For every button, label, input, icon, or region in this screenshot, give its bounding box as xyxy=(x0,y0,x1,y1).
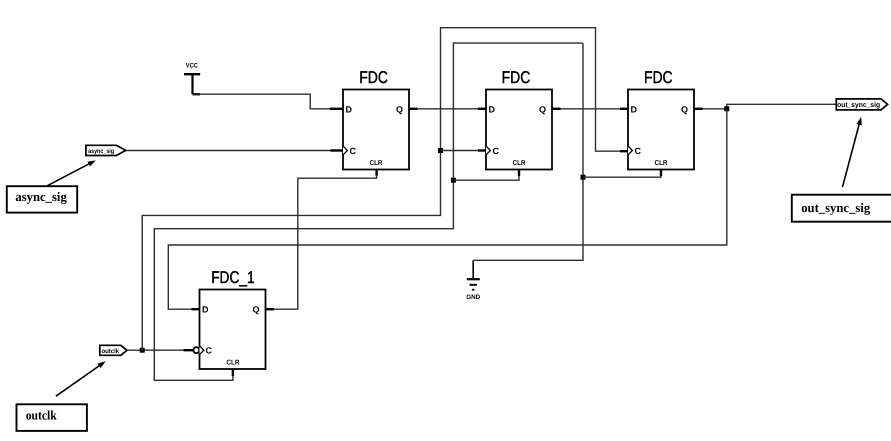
pin tag outclk xyxy=(100,345,127,355)
label box async_sig xyxy=(7,186,77,212)
label box outclk xyxy=(17,404,87,431)
svg-text:C: C xyxy=(635,146,642,156)
wire Q U4 to CLR of U1 xyxy=(274,176,377,309)
svg-text:async_sig: async_sig xyxy=(88,148,114,155)
svg-text:FDC_1: FDC_1 xyxy=(211,268,254,287)
wire VCC to D of U1 xyxy=(193,94,330,109)
pin stub Q U1 xyxy=(409,108,418,110)
pin stub D U1 xyxy=(330,108,343,110)
pin stub C U4 xyxy=(184,349,194,351)
svg-text:GND: GND xyxy=(466,294,480,301)
flip-flop U4 FDC_1 xyxy=(193,268,265,369)
svg-text:C: C xyxy=(206,346,213,356)
pin stub Q U3 xyxy=(694,108,703,110)
wire outclk riser to C of U2 and C of U3 xyxy=(142,28,620,351)
pin tag async_sig xyxy=(86,145,126,155)
arrow async_sig xyxy=(47,160,96,185)
pin stub C U2 xyxy=(478,149,486,151)
wire Q U1 to D U2 xyxy=(418,108,479,110)
svg-text:Q: Q xyxy=(539,104,546,114)
pin stub CLR U2 xyxy=(518,170,520,177)
svg-text:FDC: FDC xyxy=(644,68,673,87)
wire GND riser xyxy=(473,43,583,260)
svg-text:D: D xyxy=(346,104,353,114)
svg-text:VCC: VCC xyxy=(186,63,198,70)
svg-text:C: C xyxy=(350,146,357,156)
svg-text:outclk: outclk xyxy=(102,348,120,355)
pin stub Q U4 xyxy=(266,308,275,310)
wire CLR U3 branch xyxy=(583,176,661,177)
svg-text:D: D xyxy=(489,104,496,114)
junction dot CLR U2 net xyxy=(451,178,456,183)
pin stub D U4 xyxy=(192,308,200,310)
pin stub CLR U3 xyxy=(660,170,662,177)
svg-text:FDC: FDC xyxy=(359,68,388,87)
pin stub Q U2 xyxy=(552,108,561,110)
svg-text:Q: Q xyxy=(396,104,403,114)
svg-text:out_sync_sig: out_sync_sig xyxy=(837,100,880,109)
svg-text:D: D xyxy=(202,305,209,315)
pin stub C U1 xyxy=(331,149,344,151)
wire GND to CLR of U2 and CLR of U4 xyxy=(154,43,583,380)
ground GND xyxy=(466,260,480,301)
svg-text:C: C xyxy=(493,146,500,156)
junction dot C branch xyxy=(438,148,443,153)
pin stub CLR U4 xyxy=(232,369,234,376)
flip-flop U2 FDC xyxy=(486,68,552,169)
label box out_sync_sig xyxy=(792,195,891,222)
wire outclk to C of U4 xyxy=(127,349,184,351)
junction dot CLR U3 net xyxy=(581,175,586,180)
svg-text:CLR: CLR xyxy=(370,160,383,167)
wire Q U3 feedback to D of U4 xyxy=(168,109,727,309)
flip-flop U1 FDC xyxy=(343,68,409,169)
wire branch to C of U2 xyxy=(441,150,479,152)
power VCC xyxy=(184,63,200,95)
pin stub CLR U1 xyxy=(375,170,377,176)
svg-text:async_sig: async_sig xyxy=(15,189,67,204)
flip-flop U3 FDC xyxy=(628,68,694,169)
wire Q U3 to out_sync_sig tag xyxy=(703,104,837,109)
wire async_sig to C of U1 xyxy=(126,150,331,152)
svg-text:D: D xyxy=(631,104,638,114)
svg-text:CLR: CLR xyxy=(655,160,668,167)
svg-text:Q: Q xyxy=(253,305,260,315)
junction dot Q U3 xyxy=(724,106,729,111)
svg-text:Q: Q xyxy=(681,104,688,114)
pin stub D U2 xyxy=(478,108,486,110)
svg-text:FDC: FDC xyxy=(502,68,531,87)
pin stub C U3 xyxy=(620,150,628,152)
arrow out_sync_sig xyxy=(843,117,862,187)
arrow outclk xyxy=(56,361,106,396)
wire CLR U2 branch xyxy=(453,176,519,180)
svg-text:outclk: outclk xyxy=(26,408,58,423)
wire Q U2 to D U3 xyxy=(561,108,621,110)
pin stub D U3 xyxy=(620,108,628,110)
svg-text:out_sync_sig: out_sync_sig xyxy=(801,200,870,215)
svg-text:CLR: CLR xyxy=(226,359,239,366)
svg-text:CLR: CLR xyxy=(513,160,526,167)
junction dot outclk xyxy=(140,348,145,353)
pin tag out_sync_sig xyxy=(836,99,887,110)
